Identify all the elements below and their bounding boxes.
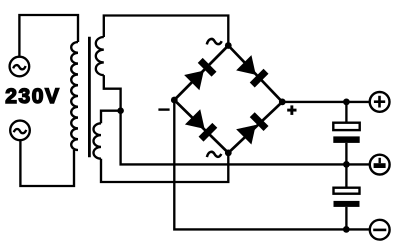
transformer T1 core — [88, 37, 91, 158]
ac source V2 (lower) — [10, 121, 30, 141]
node bridge top — [225, 42, 232, 49]
wire secondary top to bridge top — [104, 16, 229, 46]
node ground rail junction — [343, 161, 350, 168]
ac source V1 (upper) — [10, 57, 30, 77]
terminal plus output — [370, 92, 390, 112]
capacitor C1 (plus to ground) — [333, 102, 359, 164]
node center tap junction — [117, 107, 124, 114]
wire plus rail — [282, 101, 370, 103]
wire center tap to ground rail — [121, 111, 370, 165]
label ~ bottom — [207, 152, 221, 157]
terminal ground output — [370, 155, 390, 175]
node plus rail junction — [343, 99, 350, 106]
transformer T1 secondary upper winding — [96, 37, 104, 75]
wire center tap to lower winding — [101, 111, 121, 124]
node bridge bottom — [225, 150, 232, 157]
wire minus rail from bridge left — [174, 100, 369, 229]
diode D4 (bottom to right arm) — [236, 111, 269, 144]
capacitor C2 (ground to minus) — [334, 164, 360, 229]
node minus rail junction — [343, 226, 350, 233]
label minus at bridge left — [158, 108, 169, 110]
node bridge right — [279, 99, 286, 106]
transformer T1 primary winding — [71, 42, 78, 150]
wire from AC source bottom to transformer primary bottom — [20, 140, 74, 186]
wire secondary upper end to center tap — [104, 75, 121, 111]
diode D1 (left to top arm) — [184, 57, 217, 90]
diode D2 (top to right arm) — [236, 55, 269, 88]
label ~ top — [207, 39, 222, 44]
diode D3 (left to bottom arm) — [185, 109, 218, 142]
wire from AC source top to transformer primary — [19, 15, 78, 57]
terminal minus output — [370, 220, 390, 240]
wire lower winding end to bridge bottom — [101, 153, 228, 182]
bridge arm wires — [174, 46, 282, 153]
label plus at bridge right — [287, 105, 296, 115]
transformer T1 secondary lower winding — [93, 123, 101, 158]
svg-text:230V: 230V — [5, 85, 60, 108]
node bridge left — [171, 97, 178, 104]
